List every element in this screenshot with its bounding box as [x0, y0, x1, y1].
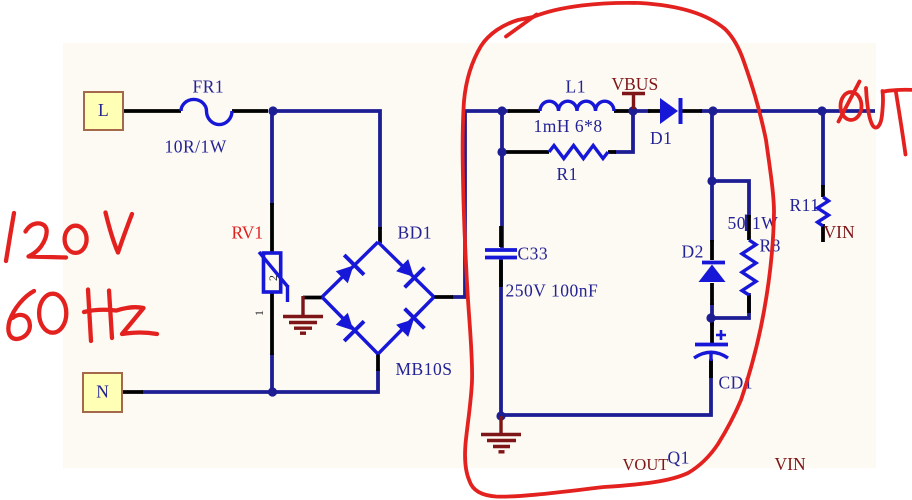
svg-text:MB10S: MB10S [396, 359, 453, 379]
svg-text:L1: L1 [566, 77, 586, 97]
svg-text:VIN: VIN [775, 454, 806, 474]
svg-text:10R/1W: 10R/1W [165, 137, 227, 157]
svg-text:D1: D1 [650, 128, 672, 148]
svg-text:Q1: Q1 [668, 448, 690, 468]
svg-text:BD1: BD1 [398, 223, 433, 243]
svg-text:R11: R11 [790, 195, 820, 215]
svg-text:1: 1 [252, 310, 266, 316]
svg-text:50: 50 [728, 213, 747, 233]
svg-text:D2: D2 [682, 242, 704, 262]
svg-text:VIN: VIN [824, 222, 855, 242]
svg-text:N: N [96, 382, 109, 402]
svg-text:VBUS: VBUS [612, 74, 659, 94]
svg-text:VOUT: VOUT [623, 455, 669, 474]
svg-text:R1: R1 [557, 164, 578, 184]
svg-text:250V 100nF: 250V 100nF [506, 281, 599, 301]
svg-text:2: 2 [266, 275, 280, 281]
svg-text:1mH 6*8: 1mH 6*8 [534, 116, 603, 136]
svg-text:FR1: FR1 [193, 77, 225, 97]
svg-text:RV1: RV1 [232, 223, 264, 243]
svg-text:C33: C33 [518, 244, 549, 264]
svg-text:L: L [98, 100, 109, 120]
